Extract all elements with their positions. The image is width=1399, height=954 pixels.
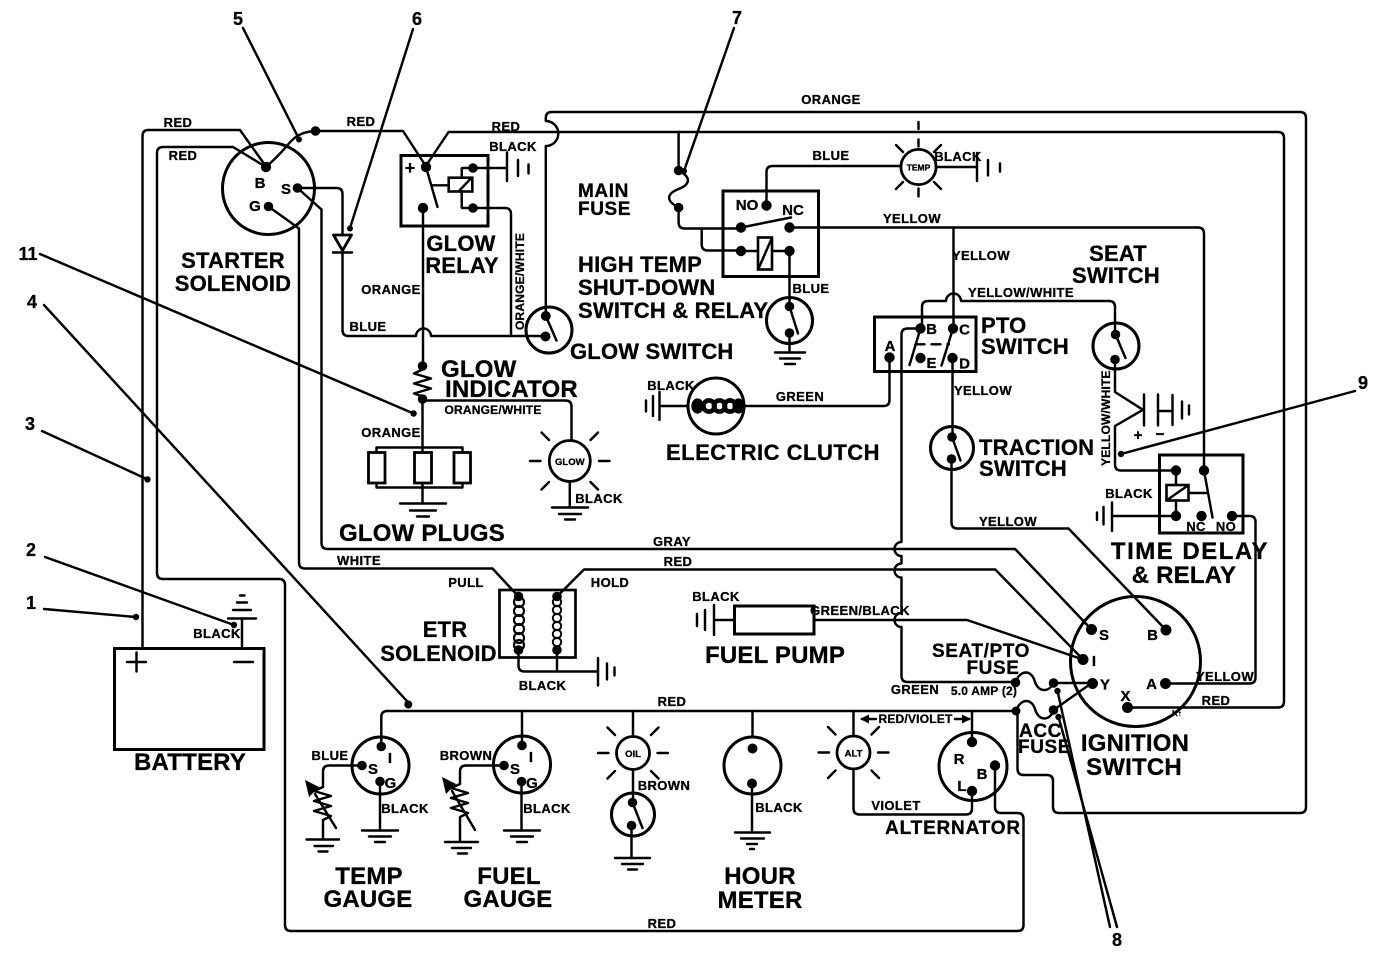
svg-text:BATTERY: BATTERY [134, 749, 246, 776]
wire: diode to BLUE horizontal with hop over orange/white vertical, to glow switch [343, 253, 546, 337]
svg-text:GREEN/BLACK: GREEN/BLACK [810, 603, 910, 618]
wire: glow relay output down to glow indicator (ORANGE) [422, 208, 424, 366]
svg-text:SOLENOID: SOLENOID [380, 641, 497, 666]
PTO terminal B [915, 323, 925, 333]
svg-text:RED: RED [664, 554, 693, 569]
high temp relay blade [741, 218, 791, 228]
time delay input terminal [1171, 465, 1181, 475]
wire: high temp switch to ground [788, 333, 790, 353]
glow relay coil terminal upper dot [462, 168, 473, 178]
wire: acc fuse to ignition Y diagonal [1054, 685, 1090, 710]
battery - terminal mark [234, 661, 253, 663]
svg-text:STARTER: STARTER [181, 248, 285, 273]
temp gauge body [352, 737, 409, 794]
svg-text:S: S [281, 181, 291, 198]
glow relay coil terminal lower dot [462, 192, 473, 209]
svg-text:3: 3 [25, 414, 35, 434]
svg-text:RED: RED [658, 694, 687, 709]
glow switch body [526, 307, 572, 353]
svg-text:NO: NO [736, 197, 759, 214]
hour meter terminals [748, 744, 758, 754]
svg-text:SWITCH & RELAY: SWITCH & RELAY [578, 298, 768, 323]
svg-text:1: 1 [26, 593, 36, 613]
wire: YELLOW branch down to PTO C [952, 228, 954, 329]
temp gauge terminal I [377, 742, 387, 752]
ground battery negative [228, 596, 256, 619]
svg-text:GAUGE: GAUGE [463, 886, 552, 913]
wire: BLUE from temp gauge S to temp sender [323, 766, 362, 788]
ground below temp gauge [362, 831, 398, 843]
svg-text:FUEL PUMP: FUEL PUMP [705, 642, 845, 669]
junction at ACC fuse input [1012, 707, 1021, 716]
fuel sender arrow [452, 791, 475, 830]
svg-text:R: R [954, 751, 965, 768]
svg-text:ALTERNATOR: ALTERNATOR [885, 818, 1021, 839]
svg-text:GLOW PLUGS: GLOW PLUGS [339, 520, 505, 547]
svg-text:HOUR: HOUR [724, 863, 795, 890]
temp sender variable resistor [314, 787, 331, 840]
OIL lamp [617, 737, 650, 770]
svg-text:YELLOW: YELLOW [954, 383, 1012, 398]
junction dot on top RED wire [311, 126, 321, 136]
svg-text:GRAY: GRAY [653, 534, 691, 549]
wire: inner RED bus starter B down left side, across to bottom box, bottom bus to alternator B [157, 147, 1024, 931]
wire: main fuse drop from inner RED line [677, 132, 679, 171]
svg-text:S: S [368, 761, 378, 778]
wire: BLUE from relay NO up and right to TEMP lamp [767, 166, 902, 206]
svg-text:ALT: ALT [845, 749, 863, 760]
traction switch body [931, 427, 974, 470]
svg-text:NC: NC [1186, 519, 1206, 534]
wire: alternator R riser [971, 711, 973, 742]
high temp relay coil terminals [736, 246, 746, 256]
ground below temp sender [307, 840, 340, 852]
time delay relay box [1160, 455, 1244, 533]
ETR HOLD coil [553, 598, 561, 606]
electric clutch body [688, 378, 744, 434]
svg-text:FUSE: FUSE [578, 199, 631, 220]
wire: glow lamp to ground [569, 482, 571, 508]
svg-text:ORANGE: ORANGE [801, 92, 860, 107]
svg-text:2: 2 [26, 540, 36, 560]
svg-text:ORANGE: ORANGE [361, 425, 420, 440]
ground at time delay relay [1097, 503, 1112, 532]
wire: branch to relay coil left pin [702, 229, 741, 251]
svg-text:RED: RED [648, 916, 677, 931]
svg-text:−: − [1156, 426, 1165, 443]
high temp relay box [723, 191, 819, 277]
TEMP lamp [901, 149, 936, 184]
wire: hour meter riser [751, 711, 753, 737]
svg-text:B: B [926, 321, 937, 338]
svg-text:K↑: K↑ [1172, 709, 1182, 718]
svg-text:OIL: OIL [625, 749, 641, 760]
wire: traction switch down right YELLOW diagonal to ignition B [952, 459, 1167, 630]
ALT lamp rays [819, 727, 889, 778]
OIL lamp rays [598, 728, 668, 779]
hour meter body [724, 737, 781, 794]
svg-text:C: C [959, 322, 970, 339]
svg-text:NO: NO [1216, 519, 1236, 534]
svg-text:YELLOW/WHITE: YELLOW/WHITE [968, 285, 1074, 300]
svg-text:I: I [529, 749, 533, 766]
temp sender arrow [315, 794, 336, 828]
terminal B of starter solenoid [261, 162, 271, 172]
acc fuse F3 [1016, 701, 1054, 718]
svg-text:GLOW SWITCH: GLOW SWITCH [570, 339, 734, 364]
ETR PULL coil [514, 597, 524, 607]
svg-text:BLUE: BLUE [312, 748, 349, 763]
PTO terminal D [947, 353, 957, 363]
oil switch terminals and blade [628, 798, 638, 808]
fuel sender variable resistor [451, 784, 468, 842]
wire: YELLOW/WHITE from PTO B up and right (hop over yellow) to seat switch [922, 294, 1115, 335]
wire: oil lamp riser [632, 711, 634, 737]
wire: OIL lamp to oil switch (BROWN) [632, 770, 634, 803]
svg-text:FUSE: FUSE [1018, 737, 1071, 758]
ETR HOLD terminals [552, 592, 562, 602]
svg-text:BLACK: BLACK [193, 626, 241, 641]
ALT lamp [837, 736, 870, 769]
svg-text:BLACK: BLACK [523, 801, 571, 816]
wire: BLUE from relay lower right pin down to high temp switch [788, 251, 790, 307]
fuel gauge terminal G [517, 777, 527, 787]
svg-text:BLACK: BLACK [647, 378, 695, 393]
wire: glow indicator down to glow plugs (ORANGE) [421, 399, 423, 448]
glow relay input terminal dot [421, 162, 431, 172]
terminal G of starter solenoid [264, 202, 274, 212]
svg-text:G: G [526, 775, 538, 792]
svg-text:G: G [385, 775, 397, 792]
wire: glow relay coil lower pin right and down (ORANGE/WHITE) to glow switch junction [473, 208, 511, 336]
wire: BROWN from fuel gauge S to fuel sender [460, 766, 504, 785]
wire: RED from junction to glow relay + terminal [316, 131, 426, 166]
PTO switch blades [910, 329, 954, 366]
svg-text:G: G [249, 198, 261, 215]
svg-text:ORANGE/WHITE: ORANGE/WHITE [444, 403, 541, 417]
PTO terminal E [915, 353, 925, 363]
time delay common terminal [1199, 465, 1209, 475]
battery B1 [115, 649, 265, 750]
svg-text:BLACK: BLACK [489, 139, 537, 154]
wire: outer RED bus from battery + up left side to starter solenoid B [143, 130, 267, 649]
svg-text:SWITCH: SWITCH [979, 456, 1067, 481]
PTO terminal A [884, 352, 894, 362]
svg-text:YELLOW: YELLOW [1196, 669, 1254, 684]
wire: ORANGE outer border from glow switch up over top right side down around to ACC fuse junction [546, 112, 1306, 813]
glow switch blade [546, 316, 557, 341]
ignition terminal S [1086, 624, 1097, 635]
svg-text:ETR: ETR [423, 617, 468, 642]
svg-text:SOLENOID: SOLENOID [175, 271, 292, 296]
wire: YELLOW from relay NC right and down to time delay relay [790, 228, 1205, 471]
svg-text:S: S [1099, 627, 1109, 644]
wire: ALT lamp down VIOLET to alternator L [854, 769, 973, 815]
battery + terminal mark [127, 653, 146, 672]
fuel gauge terminal I [517, 741, 527, 751]
wire: glow plugs to ground [421, 488, 423, 504]
svg-text:RED: RED [169, 148, 198, 163]
svg-text:Y: Y [1100, 677, 1110, 694]
wire: fuel gauge G to ground [520, 782, 522, 831]
svg-text:TIME DELAY: TIME DELAY [1111, 538, 1269, 565]
svg-text:BLACK: BLACK [934, 149, 982, 164]
svg-text:VIOLET: VIOLET [871, 798, 920, 813]
glow plug resistor 1 [369, 453, 386, 484]
glow plug resistor 3 [454, 453, 471, 484]
svg-text:SHUT-DOWN: SHUT-DOWN [578, 275, 715, 300]
alternator body [939, 733, 1007, 801]
temp gauge terminal S [357, 761, 367, 771]
svg-text:BLACK: BLACK [519, 678, 567, 693]
svg-text:BLACK: BLACK [575, 491, 623, 506]
svg-text:HOLD: HOLD [591, 575, 629, 590]
ground below oil switch [615, 858, 650, 870]
oil pressure switch body [612, 793, 655, 836]
ignition terminal B [1161, 625, 1172, 636]
svg-text:GLOW: GLOW [555, 457, 585, 468]
svg-text:RED: RED [1202, 693, 1231, 708]
svg-text:+: + [1134, 427, 1143, 444]
svg-text:METER: METER [718, 887, 803, 914]
svg-text:RED: RED [164, 115, 193, 130]
svg-text:ORANGE: ORANGE [361, 282, 420, 297]
svg-text:8: 8 [1112, 930, 1122, 950]
svg-text:S: S [510, 761, 520, 778]
junction dot for callout 4 on RED bus [404, 701, 412, 709]
glow plugs bottom bus [377, 483, 463, 488]
ground at TEMP lamp [977, 153, 1000, 181]
ground at ETR solenoid [598, 658, 615, 686]
svg-text:BLACK: BLACK [692, 589, 740, 604]
wire: hour meter to ground [751, 784, 753, 833]
svg-text:BLUE: BLUE [793, 281, 830, 296]
ignition terminal X [1122, 702, 1133, 713]
seat/pto fuse F2 [1011, 678, 1021, 688]
glow lamp rays [530, 433, 610, 490]
svg-text:BLACK: BLACK [1105, 486, 1153, 501]
wire: PTO A down and left (GREEN) to electric clutch [744, 358, 890, 407]
svg-text:YELLOW/WHITE: YELLOW/WHITE [1099, 370, 1113, 466]
svg-text:GREEN: GREEN [776, 389, 824, 404]
svg-text:RELAY: RELAY [425, 253, 499, 278]
terminal S of starter solenoid [293, 183, 303, 193]
diode D1 [334, 235, 352, 251]
wire: PTO B stub down long vertical with hops, to GREEN fuse wire [895, 329, 1016, 683]
label RED/VIOLET with arrows [862, 718, 969, 720]
svg-text:BLUE: BLUE [813, 148, 850, 163]
ignition terminal I [1078, 654, 1089, 665]
TEMP lamp rays [896, 122, 941, 197]
wire: GREEN/BLACK from fuel pump to ignition I [814, 620, 1083, 660]
wire: starter S diagonal down to GRAY bus, to ignition switch S [298, 188, 1092, 630]
wire: inner RED line from glow relay + across top and down right side to ignition X [426, 132, 1284, 708]
ground at electric clutch [646, 392, 688, 420]
alternator terminal L [967, 786, 977, 796]
time delay coil [1167, 485, 1189, 501]
glow indicator lamp [549, 441, 590, 482]
svg-text:HIGH TEMP: HIGH TEMP [578, 252, 702, 277]
svg-text:D: D [959, 356, 970, 373]
alternator terminal B [990, 760, 1000, 770]
wire: HOLD coil up to RED wire to ignition I [557, 570, 1083, 660]
high temp switch body [767, 298, 813, 344]
starter solenoid body [223, 143, 315, 235]
svg-text:L: L [957, 778, 966, 795]
svg-text:RED: RED [347, 114, 376, 129]
ground below high temp switch [775, 353, 805, 365]
high temp relay coil [758, 238, 772, 270]
ground at glow relay [507, 153, 529, 182]
traction switch terminals and blade [947, 432, 957, 442]
svg-text:GREEN: GREEN [891, 682, 939, 697]
svg-text:RED/VIOLET: RED/VIOLET [878, 712, 952, 726]
glow plugs top bus [377, 448, 463, 453]
svg-text:A: A [885, 338, 896, 355]
wire: starter S right and down through diode to BLUE wire to glow switch [298, 188, 343, 235]
wire: ignition A right and up YELLOW to time delay NO [1166, 516, 1256, 684]
ignition terminal Y [1087, 678, 1098, 689]
svg-text:E: E [926, 355, 936, 372]
svg-text:YELLOW: YELLOW [979, 514, 1037, 529]
wire: oil switch to ground [630, 826, 632, 859]
ground below fuel gauge [504, 831, 540, 843]
wire: ETR coils bottoms to ground [519, 650, 599, 672]
time delay blade [1204, 471, 1213, 518]
glow switch left terminal dot [541, 332, 551, 342]
wire: curl from RED junction into starter B [267, 131, 316, 167]
svg-text:A: A [1146, 676, 1157, 693]
ignition switch body [1071, 597, 1201, 727]
glow relay coil [449, 178, 473, 192]
svg-text:GAUGE: GAUGE [323, 886, 412, 913]
svg-text:BLUE: BLUE [350, 319, 387, 334]
svg-text:B: B [977, 766, 988, 783]
battery cell symbol at time delay [1144, 395, 1189, 426]
glow indicator resistor top dot [418, 361, 428, 371]
wire: seat switch down with chevron to time delay relay input [1115, 360, 1176, 471]
svg-text:IGNITION: IGNITION [1081, 730, 1189, 757]
glow relay output terminal dot (to glow plugs) [418, 203, 428, 213]
seat switch terminals and blade [1111, 330, 1121, 340]
svg-text:TEMP: TEMP [907, 163, 931, 173]
seat switch body [1093, 323, 1139, 369]
svg-text:PULL: PULL [448, 575, 484, 590]
ground below glow plugs [400, 504, 446, 517]
ground below glow lamp [552, 508, 588, 520]
wire: RED bus of bottom box [387, 710, 1012, 712]
glow relay box [401, 156, 488, 227]
main fuse F1 [674, 166, 684, 176]
svg-text:X: X [1120, 688, 1130, 705]
ETR solenoid box [500, 590, 576, 658]
svg-text:4: 4 [27, 292, 37, 312]
svg-text:BLACK: BLACK [755, 800, 803, 815]
PTO switch dashed link [916, 343, 950, 345]
svg-text:I: I [388, 750, 392, 767]
svg-text:SWITCH: SWITCH [1086, 754, 1182, 781]
glow plug resistor 2 [415, 453, 432, 484]
wire: time delay ground wire [1112, 515, 1176, 517]
ignition terminal A [1160, 678, 1171, 689]
PTO switch box [875, 317, 977, 372]
time delay NC terminal [1196, 511, 1206, 521]
wire: temp gauge riser from RED bus [381, 711, 387, 747]
ETR PULL terminals [514, 592, 524, 602]
svg-text:NC: NC [782, 202, 804, 219]
ground below hour meter [735, 833, 770, 850]
fuel gauge terminal S [499, 761, 509, 771]
high temp switch terminals and blade [785, 302, 795, 312]
wire: glow indicator output right then down to glow lamp (ORANGE/WHITE) [423, 399, 572, 441]
PTO terminal C [948, 323, 958, 333]
svg-text:BLACK: BLACK [381, 801, 429, 816]
svg-text:5: 5 [233, 9, 243, 29]
svg-text:YELLOW: YELLOW [952, 248, 1010, 263]
svg-text:11: 11 [18, 244, 37, 264]
svg-text:ELECTRIC CLUTCH: ELECTRIC CLUTCH [666, 440, 880, 465]
svg-text:9: 9 [1358, 373, 1368, 393]
wire: TEMP lamp to ground (BLACK) [936, 166, 977, 168]
svg-text:BROWN: BROWN [638, 778, 691, 793]
svg-text:WHITE: WHITE [337, 553, 381, 568]
time delay ground terminal [1171, 511, 1181, 521]
high temp relay NC terminal [784, 222, 794, 232]
svg-text:SWITCH: SWITCH [981, 334, 1069, 359]
glow relay switch blade [426, 167, 438, 207]
electric clutch coil [691, 398, 703, 413]
temp gauge terminal G [375, 777, 385, 787]
svg-text:I: I [1092, 653, 1096, 670]
svg-text:FUSE: FUSE [966, 658, 1019, 679]
high temp relay common terminal [736, 222, 746, 232]
svg-text:& RELAY: & RELAY [1132, 562, 1237, 589]
svg-text:7: 7 [732, 8, 742, 28]
glow indicator resistor zigzag [414, 366, 431, 399]
svg-text:B: B [255, 175, 266, 192]
wire: battery negative to ground [241, 619, 243, 649]
svg-text:6: 6 [412, 9, 422, 29]
wire: ALT lamp riser [852, 711, 854, 736]
high temp relay NO terminal [761, 200, 771, 210]
wire: seat/pto fuse to ignition Y [1054, 682, 1089, 684]
svg-text:5.0 AMP (2): 5.0 AMP (2) [951, 684, 1017, 698]
wire: glow relay upper coil pin to ground [473, 167, 507, 169]
svg-text:B: B [1147, 627, 1158, 644]
fuel pump body [735, 606, 815, 634]
wire: main fuse to high temp relay common [679, 208, 741, 229]
wire: PTO D down to traction switch (YELLOW) [951, 358, 953, 437]
svg-text:ORANGE/WHITE: ORANGE/WHITE [513, 233, 527, 330]
svg-text:YELLOW: YELLOW [883, 211, 941, 226]
wire: temp gauge G to ground [379, 782, 381, 831]
wire: starter G diagonal down, WHITE wire to ETR solenoid PULL [269, 207, 519, 597]
svg-text:SWITCH: SWITCH [1072, 263, 1160, 288]
ground below fuel sender [445, 842, 478, 854]
glow indicator resistor bottom dot [418, 394, 428, 404]
svg-text:INDICATOR: INDICATOR [445, 376, 578, 403]
svg-text:+: + [405, 158, 416, 178]
time delay NO terminal [1227, 511, 1237, 521]
fuel gauge body [494, 736, 551, 793]
ground at fuel pump [697, 605, 735, 635]
svg-text:BROWN: BROWN [440, 748, 493, 763]
alternator terminal R [967, 737, 977, 747]
wire: fuel gauge riser [521, 711, 523, 746]
glow switch top terminal dot [541, 311, 551, 321]
